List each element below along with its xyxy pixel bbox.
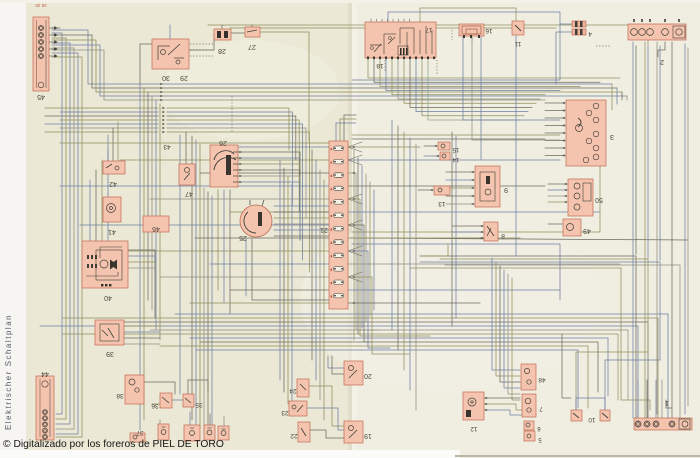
wire light switch pin 3 (274, 217, 330, 219)
svg-text:27: 27 (248, 43, 256, 50)
wire 30 left (140, 44, 152, 84)
switch 26 pin chevron 1 (239, 151, 242, 154)
wire left vertical 1 (139, 84, 141, 430)
wire right margin stub 4 (626, 96, 628, 100)
wire fuse feed right 11 (348, 277, 410, 354)
lamp unit 48 (521, 364, 546, 390)
wire right margin stub 2 (616, 88, 618, 104)
wire to 15 (424, 145, 437, 147)
wire relay 18 top pin 8 (409, 19, 411, 22)
gauge 50 pin chevron 1 (564, 183, 567, 186)
switch 26 pin chevron 2 (239, 157, 242, 160)
wire right margin stub 1 (611, 84, 613, 110)
wire 42 feed a (107, 135, 109, 161)
wire lane to 20 19 2 (315, 160, 317, 380)
wire 45 to 44 run 4 (52, 48, 74, 429)
wire switch 16 pin 2 (472, 37, 560, 140)
wire fuse fan 4 up (348, 220, 362, 225)
wire lane to 20 19 1 (311, 150, 313, 360)
wiper motor 40 (82, 241, 128, 301)
wire lane to flasher units 1 (279, 160, 281, 380)
wire left vertical 2 (143, 88, 145, 420)
wire fold strip vertical 6 (373, 190, 375, 310)
svg-text:42: 42 (109, 180, 117, 187)
wire to 50 4 (548, 201, 567, 203)
wire fuse feed left 6 (230, 211, 329, 213)
wire fuse feed left 7 (80, 224, 329, 226)
wire engine riser 3 (655, 380, 657, 418)
cluster 3 pin chevron 6 (562, 139, 565, 142)
wire fuse fan 3 down (348, 199, 362, 204)
svg-text:41: 41 (108, 228, 116, 235)
relay unit 18 17 (365, 22, 436, 69)
switch 23 (281, 401, 307, 416)
gauge 15 chevron (434, 145, 437, 148)
wire regulator pin 1 (446, 171, 474, 173)
wire fuse 4 a (352, 24, 571, 80)
splice 43 chevron b3 (162, 115, 165, 118)
wire top bus 2 (230, 27, 556, 29)
wire fuse fan 6 up (348, 272, 362, 277)
relay 42 (103, 161, 125, 187)
wire splice 43 in 4 (60, 119, 158, 121)
wire light switch pin 1 (274, 205, 330, 207)
cluster 3 pin chevron 8 (562, 154, 565, 157)
wire 18 top feed (388, 12, 560, 24)
wire 28 to 27 (231, 32, 245, 34)
wire splice 43 in 3 (45, 115, 158, 117)
wire regulator pin 5 (446, 203, 474, 205)
wire lane to 20 19 4 (323, 180, 325, 420)
svg-text:40: 40 (104, 294, 112, 301)
wire regulator pin 4 (446, 195, 474, 197)
wire splice 43 in 6 (60, 127, 158, 129)
wire main band 4 (40, 326, 638, 418)
wire mid-left vertical 6 (211, 196, 213, 440)
svg-text:26: 26 (219, 139, 227, 146)
wire left vertical 3 (147, 92, 149, 300)
wire fuse feed right 3 (348, 173, 380, 330)
svg-text:23: 23 (281, 409, 289, 416)
wire to lamp 34 (159, 420, 161, 430)
wire coil pin 3 (452, 237, 483, 239)
svg-text:11: 11 (514, 40, 521, 47)
wire center-right lane 4 (409, 138, 411, 390)
wire main band 7 (190, 338, 608, 396)
svg-text:9: 9 (504, 186, 508, 193)
wire light switch pin 5 (274, 229, 330, 231)
wire right band 3 (420, 262, 660, 410)
svg-text:48: 48 (538, 376, 546, 383)
svg-text:49: 49 (583, 227, 591, 234)
wire relay 18 out 5 (392, 58, 545, 95)
wire battery feed 6 (659, 46, 661, 260)
wire fuse feed left 9 (120, 250, 329, 252)
gauge unit 50 (568, 179, 603, 216)
engine connector 1 (634, 399, 692, 430)
wire fuse 4 b (556, 32, 571, 84)
white bottom margin (0, 450, 460, 458)
wire wiper 3 (128, 262, 155, 318)
wire 39 pin 1 (124, 325, 160, 327)
wire center-right lane 5 (415, 144, 417, 410)
wire splice 43 out 7 (167, 132, 309, 272)
wire left vertical 6 (159, 104, 161, 340)
wire fuse fan 5 up (348, 246, 362, 251)
wire ignition switch pin 3 (238, 164, 300, 240)
switch 35 (183, 394, 203, 408)
svg-text:1: 1 (665, 399, 669, 406)
splice 43 chevron b5 (162, 123, 165, 126)
wire ignition switch pin 1 (238, 152, 300, 240)
wire 45 bus 4 (52, 45, 627, 96)
svg-text:29: 29 (180, 74, 188, 81)
wire 45 bus 5 (52, 50, 545, 100)
flasher 38 (116, 375, 144, 404)
wire cross line 3 (352, 244, 560, 300)
switch 22 (290, 422, 310, 442)
wire splice 43 out 3 (167, 116, 296, 160)
wire 39 pin 4 (124, 343, 160, 345)
wire 45 to 44 run 5 (52, 53, 78, 434)
light switch 25 (239, 200, 272, 241)
horn 41 (103, 197, 121, 235)
gauge 14 (440, 152, 459, 162)
lamp 6 (524, 421, 541, 431)
wire relay 18 top pin 2 (376, 19, 378, 22)
regulator 9 pin chevron 4 (471, 195, 474, 198)
wire from regulator down b (455, 136, 457, 318)
wire wiper top 4 (107, 150, 109, 241)
wire 12 to 7 a (484, 404, 522, 410)
wire to 13 (418, 189, 433, 191)
splice 43 chevron b4 (162, 119, 165, 122)
wire below switch vertical 1 (217, 190, 219, 290)
wire switch 16 pin 1 (463, 37, 560, 120)
wire splice 43 out 1 (167, 108, 289, 150)
svg-text:16: 16 (485, 27, 493, 34)
switch 26 pin chevron 5 (239, 175, 242, 178)
wire 27 to top bus (251, 25, 253, 27)
svg-text:45: 45 (37, 93, 45, 100)
splice 43 chevron a2 (160, 87, 163, 90)
wire center-right lane 1 (391, 120, 393, 330)
sender 49 (563, 219, 591, 236)
fuse splice chevron 2 (352, 172, 355, 175)
relay block 30 29 (152, 39, 189, 81)
wire lane to flasher units 3 (287, 176, 289, 404)
switch 39 (95, 320, 124, 357)
wire fold strip vertical 4 (365, 174, 367, 322)
wire splice 43 out 6 (167, 128, 306, 218)
inline fuse 28 (214, 29, 231, 54)
lamp feed chevron 2 (485, 403, 488, 406)
plug 10 left (571, 410, 582, 421)
wire fuse feed right 4 (348, 185, 545, 187)
wire relay 18 out 1 (368, 58, 620, 78)
splice 43 chevron b6 (162, 127, 165, 130)
cluster 3 pin chevron 3 (562, 117, 565, 120)
switch 26 pin chevron 4 (239, 169, 242, 172)
wire fold strip vertical 2 (357, 158, 359, 334)
wire coil pin 1 (452, 225, 483, 227)
wire 42 feed c (117, 122, 119, 161)
fuse splice chevron 7 (352, 302, 355, 305)
wire main band 1 (175, 314, 668, 418)
wire to 50 3 (548, 195, 567, 197)
connector 45 (33, 3, 57, 100)
wire wiper 2 (128, 256, 155, 318)
wire splice 43 in 2 (60, 111, 158, 113)
wire instrument feed 6 (545, 140, 565, 142)
wire cross line y135 (352, 134, 560, 136)
wire wiper top 1 (89, 180, 91, 241)
wire light switch pin 2 (274, 211, 330, 213)
wire main band 6 (62, 334, 618, 400)
regulator 9 pin chevron 5 (471, 203, 474, 206)
wire to lamp 32 (209, 414, 211, 425)
wire cross line y139 (352, 138, 545, 140)
svg-text:44: 44 (41, 370, 49, 377)
wire 30 up (169, 25, 171, 39)
plug 10 right (588, 410, 610, 423)
wire instrument feed 3 (545, 117, 565, 119)
svg-text:28 30: 28 30 (35, 3, 47, 8)
gauge 50 pin chevron 2 (564, 189, 567, 192)
lamp 32 (204, 425, 215, 440)
regulator 9 pin chevron 1 (471, 171, 474, 174)
wire to 20 (328, 356, 344, 368)
wire fold strip vertical 1 (353, 150, 355, 340)
wire long vertical x180 (179, 135, 181, 394)
cluster 3 pin chevron 4 (562, 124, 565, 127)
svg-text:50: 50 (595, 196, 603, 203)
wire fuse feed right 10 (348, 263, 620, 265)
ignition coil 8 (484, 222, 505, 241)
wire battery feed 7 (671, 42, 673, 418)
wire battery feed 9 (687, 48, 689, 406)
wire wiper 4 (128, 268, 155, 318)
wire 39 pin 2 (124, 331, 160, 333)
relay 19 (344, 421, 372, 443)
lamp feed chevron 3 (485, 409, 488, 412)
wire left vertical 5 (155, 100, 157, 330)
wire right margin stub 3 (621, 92, 623, 100)
wire fuse feed right 9 (348, 251, 390, 348)
svg-text:15: 15 (452, 146, 459, 152)
svg-text:3: 3 (610, 133, 614, 142)
cluster 3 pin chevron 1 (562, 102, 565, 105)
wire instrument feed 1 (545, 102, 565, 104)
wire main band 3 (100, 322, 648, 418)
wire 12 to 7 b (484, 410, 522, 415)
wire to tail lamps 4 (504, 270, 520, 388)
paper background right of fold (352, 0, 700, 458)
wire fuse fan 3 up (348, 194, 362, 199)
wire 11 drop (515, 36, 517, 256)
wire fuse feed left 8 (195, 237, 329, 239)
svg-text:43: 43 (163, 143, 171, 150)
switch 24 (289, 379, 309, 397)
wire to 14 (424, 155, 439, 157)
wire light switch drop a (245, 239, 247, 296)
wire to 50 2 (548, 189, 567, 191)
wire 45 to 44 run 3 (52, 43, 70, 424)
wire battery feed 2 (635, 46, 637, 254)
wire long cross line (350, 238, 688, 240)
wire splice 43 out 4 (167, 120, 299, 212)
lamp feed chevron 1 (485, 397, 488, 400)
splice 43 chevron b1 (162, 107, 165, 110)
svg-text:21: 21 (320, 226, 328, 233)
wire light switch pin 6 (274, 235, 330, 237)
wire fuse feed right 12 (348, 289, 560, 291)
wire splice 43 out 5 (167, 124, 303, 260)
relay 20 (344, 361, 372, 385)
wire relay 18 top pin 5 (392, 19, 394, 22)
wire battery feed 1 (632, 42, 634, 418)
wire main band 10 (196, 350, 578, 408)
wire switch 16 pin 3 (481, 37, 560, 160)
wire fuse feed left 3 (200, 172, 329, 174)
wire 45 to 44 run 6 (52, 57, 82, 437)
wire relay 18 top pin 7 (403, 19, 405, 22)
wire 42 feed b (112, 128, 114, 161)
wire fold strip vertical 3 (361, 166, 363, 328)
splice 43 chevron a5 (160, 99, 163, 102)
wire battery feed 8 (684, 44, 686, 414)
wire 28 to top bus (221, 25, 223, 29)
wire relay 18 out 8 (410, 58, 532, 107)
wire relay 18 top pin 3 (381, 19, 383, 22)
wire 45 to 44 run 2 (52, 38, 66, 419)
fuse splice chevron 6 (352, 276, 355, 279)
sender 13 chevron (430, 189, 433, 192)
svg-text:22: 22 (290, 432, 298, 439)
wire right band 4 (445, 265, 680, 418)
wire fuse feed left 2 (120, 159, 329, 161)
wire to tail lamps 6 (512, 278, 520, 400)
switch 11 (512, 21, 524, 47)
cluster 3 pin chevron 2 (562, 109, 565, 112)
svg-text:14: 14 (452, 156, 459, 162)
wire fuse feed right 5 (348, 199, 430, 336)
splice 43 chevron b7 (162, 131, 165, 134)
svg-text:7: 7 (539, 405, 543, 412)
wire instrument feed 5 (545, 132, 565, 134)
wire center-right lane 2 (397, 126, 399, 350)
splice group 43 (163, 143, 171, 150)
wire 12 to 48 (484, 397, 520, 399)
switch 16 (459, 24, 493, 38)
svg-text:38: 38 (116, 392, 124, 399)
distributor 12 (463, 392, 484, 432)
wire 36 to 35 (172, 399, 183, 401)
wire wiper top 3 (101, 160, 103, 241)
splice 43 chevron a3 (160, 91, 163, 94)
wire center-right lane 3 (403, 132, 405, 370)
wire to tail lamps 1 (492, 258, 520, 370)
svg-text:18: 18 (376, 62, 384, 69)
svg-text:12: 12 (470, 425, 478, 432)
wire relay 18 top pin 1 (370, 19, 372, 22)
fuse splice chevron 3 (352, 198, 355, 201)
wire engine riser 1 (637, 380, 639, 418)
wire lane to flasher units 4 (291, 184, 293, 416)
wire right band 2 (440, 259, 648, 410)
gauge 50 pin chevron 3 (564, 195, 567, 198)
wire engine riser 2 (646, 380, 648, 418)
wire battery feed 4 (647, 46, 649, 258)
lamp 37 (130, 429, 145, 442)
wire 44 top stub (44, 376, 46, 384)
switch 27 (245, 27, 260, 50)
bottom edge line (455, 455, 700, 457)
wire coil pin 2 (452, 231, 483, 233)
switch 47 (179, 164, 195, 197)
wire fuse fan 1 down (348, 147, 362, 152)
wire to lamp 31 (223, 416, 225, 426)
wire wiper 1 (128, 250, 155, 318)
wire ignition switch pin 4 (238, 170, 300, 240)
splice 43 chevron a1 (160, 83, 163, 86)
svg-text:36: 36 (151, 402, 159, 409)
regulator 9 pin chevron 2 (471, 179, 474, 182)
wire relay 18 out 10 (422, 58, 524, 116)
wire main band 2 (62, 318, 658, 418)
wire mid-left vertical 1 (191, 136, 193, 420)
wire fuse feed left 12 (230, 289, 329, 291)
wire main band 5 (150, 330, 628, 400)
wire regulator pin 2 (446, 179, 474, 181)
fuse splice chevron 1 (352, 146, 355, 149)
wire mid-left vertical 3 (199, 144, 201, 428)
wire to lamp 33 (189, 412, 191, 425)
wire fuse feed left 13 (190, 302, 329, 304)
wire relay 18 out 11 (428, 58, 520, 120)
wire fuse feed left 10 (210, 263, 329, 265)
wire splice 43 in 1 (45, 107, 158, 109)
svg-text:8: 8 (501, 232, 505, 239)
wire fuse feed left 11 (160, 276, 329, 278)
gauge 14 chevron (436, 155, 439, 158)
wire relay 18 out 4 (386, 58, 560, 91)
svg-text:39: 39 (106, 350, 114, 357)
lamp 5 (524, 431, 542, 442)
wire right band 5 (410, 268, 650, 410)
fuse box 21 (320, 141, 348, 309)
switch 26 pin chevron 6 (239, 181, 242, 184)
wire to tail lamps 3 (500, 266, 520, 382)
wire mid-left vertical 5 (207, 192, 209, 436)
svg-text:Elektrischer Schaltplan: Elektrischer Schaltplan (4, 314, 13, 430)
svg-text:47: 47 (185, 190, 193, 197)
wire fuse feed left 4 (60, 185, 329, 187)
connector 44 (36, 370, 54, 440)
terminal strip 2 (628, 19, 686, 65)
wire 23 to 19 (307, 408, 344, 430)
svg-text:19: 19 (364, 432, 372, 439)
wire light switch pin 4 (274, 223, 330, 225)
wire fuse fan 4 down (348, 225, 362, 230)
svg-text:13: 13 (438, 200, 446, 207)
wire from regulator down a (451, 132, 453, 326)
svg-text:10: 10 (588, 416, 596, 423)
svg-text:35: 35 (195, 401, 203, 408)
wire fuse feed right 2 (348, 159, 480, 161)
wire wiper top 2 (95, 170, 97, 241)
gauge 50 pin chevron 4 (564, 201, 567, 204)
